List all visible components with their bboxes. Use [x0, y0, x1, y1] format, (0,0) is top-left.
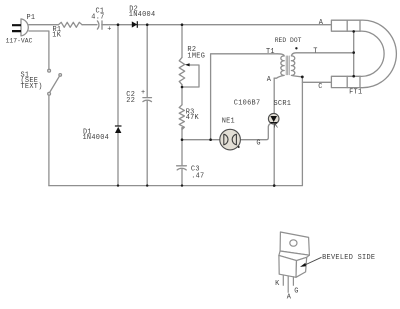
- switch S1: [48, 69, 51, 72]
- flash tube FT1 top cap: [331, 20, 360, 31]
- resistor R3: [179, 105, 184, 130]
- svg-text:22: 22: [126, 97, 135, 105]
- wire top rail: [29, 24, 331, 26]
- svg-text:.47: .47: [191, 173, 204, 181]
- svg-text:1MEG: 1MEG: [187, 52, 205, 60]
- svg-text:4.7: 4.7: [91, 14, 104, 22]
- svg-text:BEVELED SIDE: BEVELED SIDE: [322, 254, 375, 262]
- plug prongs: [12, 25, 21, 31]
- svg-text:A: A: [319, 19, 324, 27]
- capacitor C2: [143, 98, 152, 102]
- svg-text:SCR1: SCR1: [274, 100, 292, 108]
- wire R2 to R3: [181, 85, 183, 105]
- svg-text:T: T: [313, 48, 317, 56]
- svg-text:A: A: [267, 76, 272, 84]
- neon lamp NE1: [220, 129, 241, 150]
- capacitor C3: [177, 166, 187, 170]
- svg-text:A: A: [287, 294, 292, 302]
- svg-text:117-VAC: 117-VAC: [6, 37, 33, 44]
- wire C to tube: [302, 81, 331, 83]
- svg-text:1N4004: 1N4004: [83, 134, 110, 142]
- beveled side arrow: [304, 257, 322, 265]
- transformer core: [286, 56, 289, 75]
- capacitor C1: [97, 21, 102, 29]
- svg-text:G: G: [294, 288, 298, 296]
- flash tube trigger line: [353, 31, 355, 76]
- SCR1 thyristor: [268, 113, 279, 124]
- wire bottom rail: [49, 78, 303, 186]
- svg-text:1K: 1K: [52, 31, 61, 39]
- wire gate run NE1: [182, 124, 270, 140]
- svg-text:NE1: NE1: [222, 117, 235, 125]
- svg-text:47K: 47K: [186, 114, 200, 122]
- diode D1: [115, 126, 122, 133]
- svg-text:1N4004: 1N4004: [129, 11, 156, 19]
- wire R3 to C3 to rail: [181, 128, 183, 186]
- svg-text:T1: T1: [266, 48, 275, 56]
- resistor R1: [59, 22, 83, 27]
- potentiometer R2: [179, 57, 185, 84]
- svg-text:K: K: [275, 280, 280, 288]
- flash tube FT1 envelope arcs: [360, 20, 396, 88]
- R2 wiper wire: [182, 65, 199, 87]
- wire D1 column: [117, 25, 119, 186]
- T1 phasing dot: [295, 47, 297, 49]
- svg-text:C106B7: C106B7: [234, 100, 261, 108]
- svg-text:RED DOT: RED DOT: [275, 37, 302, 44]
- package TO-202 drawing: [279, 232, 310, 293]
- transformer T1 primary: [274, 54, 284, 78]
- diode D2: [132, 21, 138, 28]
- R2 wiper arrowhead: [185, 63, 190, 66]
- wire C2 column: [146, 25, 148, 186]
- wire SCR anode column: [273, 78, 275, 185]
- wire S1 down to rail: [48, 95, 50, 185]
- svg-text:TEXT): TEXT): [21, 83, 43, 91]
- plug P1: [21, 19, 28, 36]
- transformer T1 secondary: [291, 53, 353, 77]
- svg-text:P1: P1: [27, 14, 36, 22]
- svg-text:K: K: [274, 123, 279, 131]
- wire plug bottom to S1: [29, 31, 49, 69]
- flash tube FT1 bottom cap: [331, 76, 360, 87]
- wire T1 primary feed: [211, 54, 278, 140]
- svg-text:+: +: [141, 89, 145, 97]
- svg-text:+: +: [107, 26, 111, 34]
- svg-text:FT1: FT1: [349, 89, 362, 97]
- svg-text:C: C: [318, 83, 322, 91]
- svg-text:G: G: [256, 140, 260, 148]
- wire R2 column top: [181, 25, 183, 58]
